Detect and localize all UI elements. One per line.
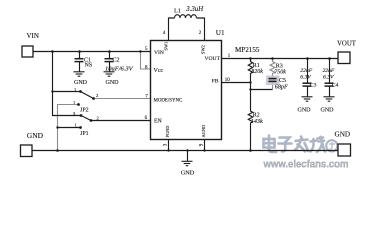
- svg-text:JP1: JP1: [80, 131, 89, 137]
- svg-text:143k: 143k: [251, 119, 263, 125]
- svg-text:SW1: SW1: [163, 42, 168, 51]
- svg-text:VOUT: VOUT: [337, 40, 357, 47]
- svg-text:MP2155: MP2155: [235, 46, 260, 54]
- svg-text:C5: C5: [279, 78, 286, 84]
- svg-text:www.elecfans.com: www.elecfans.com: [263, 159, 349, 171]
- svg-text:6.3V: 6.3V: [300, 74, 311, 80]
- svg-text:GND: GND: [181, 170, 195, 177]
- svg-text:GND: GND: [27, 131, 44, 140]
- svg-text:EN: EN: [154, 119, 163, 125]
- svg-text:PGND: PGND: [165, 126, 170, 138]
- svg-text:C2: C2: [113, 58, 120, 64]
- svg-text:3.3uH: 3.3uH: [185, 6, 204, 13]
- svg-text:FB: FB: [212, 78, 219, 84]
- svg-text:10uF/6.3V: 10uF/6.3V: [105, 66, 134, 73]
- svg-text:R1: R1: [253, 63, 260, 69]
- svg-text:10: 10: [225, 78, 231, 83]
- svg-text:820k: 820k: [251, 69, 263, 75]
- svg-text:U1: U1: [216, 29, 225, 37]
- svg-text:JP2: JP2: [80, 108, 89, 114]
- svg-text:750k: 750k: [274, 70, 286, 76]
- svg-text:C3: C3: [310, 82, 317, 88]
- svg-text:R2: R2: [253, 113, 260, 119]
- svg-text:Vcc: Vcc: [154, 68, 164, 74]
- svg-text:SW2: SW2: [200, 45, 205, 54]
- svg-text:68pF: 68pF: [275, 85, 288, 91]
- svg-text:6.3V: 6.3V: [323, 74, 334, 80]
- svg-text:C4: C4: [332, 82, 339, 88]
- svg-text:GND: GND: [321, 108, 335, 114]
- svg-text:GND: GND: [298, 108, 312, 114]
- svg-text:NS: NS: [85, 62, 93, 68]
- svg-text:VOUT: VOUT: [204, 56, 220, 62]
- svg-text:AGND: AGND: [201, 125, 206, 138]
- svg-text:GND: GND: [74, 80, 88, 86]
- svg-text:22uF: 22uF: [323, 68, 335, 74]
- svg-text:GND: GND: [106, 80, 120, 86]
- svg-text:L1: L1: [174, 7, 181, 14]
- svg-text:22uF: 22uF: [300, 68, 312, 74]
- svg-text:GND: GND: [335, 131, 351, 139]
- svg-text:MODE/SYNC: MODE/SYNC: [154, 98, 183, 103]
- svg-text:VIN: VIN: [27, 32, 39, 40]
